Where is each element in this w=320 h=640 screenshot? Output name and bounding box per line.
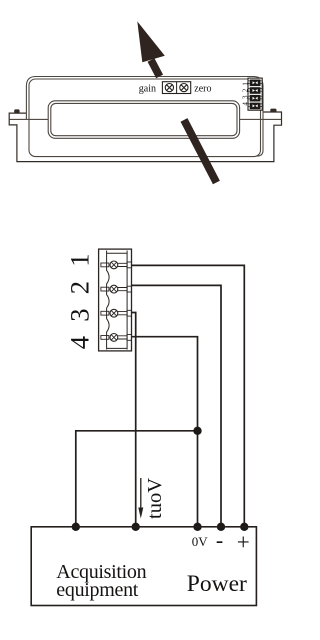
terminal block inner top edge	[107, 252, 128, 254]
svg-text:-: -	[216, 528, 223, 553]
node Vout terminal	[132, 523, 140, 531]
bezel inner edge	[29, 79, 261, 157]
svg-text:0V: 0V	[192, 534, 209, 549]
connector J1 pin 4 pad	[250, 103, 261, 110]
terminal 4 clamp	[127, 335, 131, 341]
connector J1 border hatching	[248, 81, 262, 107]
terminal 2 screw	[110, 285, 118, 293]
node acquisition input	[72, 523, 80, 531]
terminal 2 pin bar	[118, 288, 127, 291]
svg-text:Power: Power	[187, 571, 247, 597]
terminal 1 wire slot	[101, 263, 109, 267]
front parting line right segment	[240, 118, 282, 120]
terminal 4 screw	[110, 334, 118, 342]
junction node on 0V wire	[193, 427, 201, 435]
pointer arrow shaft upper segment	[151, 60, 160, 76]
potentiometer box	[162, 82, 190, 94]
connector J1 pin 1 pad	[250, 80, 261, 87]
equipment box	[31, 527, 256, 606]
node 0V terminal	[193, 523, 201, 531]
right mounting screw bump	[270, 109, 276, 113]
terminal 3 pin bar	[118, 312, 127, 315]
terminal block inner bottom edge	[107, 347, 128, 349]
terminal block molded left edge	[107, 251, 110, 350]
left mounting screw bump	[14, 109, 19, 113]
node plus terminal	[240, 523, 248, 531]
zero potentiometer screw	[180, 84, 188, 92]
terminal 1 screw	[110, 261, 118, 269]
svg-text:tuoV: tuoV	[144, 478, 166, 519]
front parting line left segment	[9, 118, 48, 120]
Vout direction arrow	[138, 478, 143, 519]
terminal 4 wire slot	[101, 336, 109, 340]
terminal block TB1 body	[99, 249, 132, 351]
wire branch to acquisition input	[76, 431, 198, 527]
terminal 2 clamp	[127, 286, 131, 292]
wire pin1 to plus	[132, 265, 245, 526]
potentiometer box divider	[176, 82, 178, 94]
connector J1 pin 2 pad	[250, 87, 261, 94]
terminal 1 clamp	[127, 262, 131, 268]
terminal block inner right edge	[126, 251, 128, 350]
terminal 2 wire slot	[101, 287, 109, 291]
terminal 3 clamp	[127, 310, 131, 316]
terminal 4 pin bar	[118, 336, 127, 339]
wire pin2 to minus	[132, 285, 222, 526]
wire pin3 to Vout	[132, 313, 136, 527]
display window outer edge	[48, 101, 239, 139]
connector J1 pin 3 pad	[250, 95, 261, 102]
meter case outline	[9, 112, 281, 162]
connector J1 border	[248, 78, 262, 110]
wire pin4 to 0V	[132, 337, 198, 527]
svg-text:4 3 2 1: 4 3 2 1	[242, 81, 250, 105]
display window inner edge	[51, 103, 237, 135]
svg-text:+: +	[237, 529, 250, 554]
gain potentiometer screw	[165, 84, 173, 92]
svg-text:equipment: equipment	[56, 579, 138, 601]
svg-text:zero: zero	[194, 83, 211, 94]
pointer arrow head	[137, 21, 165, 62]
pointer arrow shaft lower segment	[184, 120, 216, 183]
terminal 3 wire slot	[101, 311, 109, 315]
svg-text:4 3 2 1: 4 3 2 1	[65, 250, 95, 349]
bezel outer edge	[26, 77, 263, 157]
terminal 3 screw	[110, 309, 118, 317]
terminal 1 pin bar	[118, 263, 127, 266]
svg-text:gain: gain	[139, 83, 156, 94]
node minus terminal	[217, 523, 225, 531]
